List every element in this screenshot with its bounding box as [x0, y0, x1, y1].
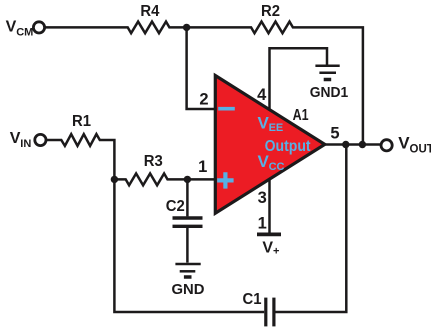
- svg-text:A1: A1: [293, 107, 309, 124]
- svg-text:+: +: [273, 246, 279, 258]
- svg-text:Output: Output: [265, 138, 312, 155]
- svg-text:IN: IN: [20, 138, 31, 150]
- svg-text:CM: CM: [16, 26, 33, 38]
- svg-text:V: V: [10, 130, 21, 147]
- svg-text:R2: R2: [261, 3, 280, 20]
- svg-text:1: 1: [198, 158, 207, 176]
- svg-text:V: V: [262, 240, 273, 257]
- svg-text:GND: GND: [172, 281, 205, 298]
- svg-text:1: 1: [258, 214, 267, 232]
- svg-text:GND1: GND1: [310, 84, 349, 101]
- svg-text:R1: R1: [72, 113, 91, 130]
- svg-text:OUT: OUT: [410, 144, 431, 156]
- svg-text:R4: R4: [140, 3, 159, 20]
- svg-text:3: 3: [258, 189, 267, 207]
- svg-text:CC: CC: [269, 161, 285, 173]
- svg-text:5: 5: [330, 125, 339, 143]
- svg-text:R3: R3: [144, 153, 163, 170]
- svg-text:2: 2: [199, 91, 208, 109]
- svg-text:EE: EE: [269, 122, 284, 134]
- svg-text:C1: C1: [243, 291, 262, 308]
- svg-text:V: V: [6, 19, 17, 36]
- svg-text:4: 4: [257, 86, 267, 104]
- svg-text:V: V: [398, 133, 410, 152]
- svg-text:C2: C2: [166, 198, 185, 215]
